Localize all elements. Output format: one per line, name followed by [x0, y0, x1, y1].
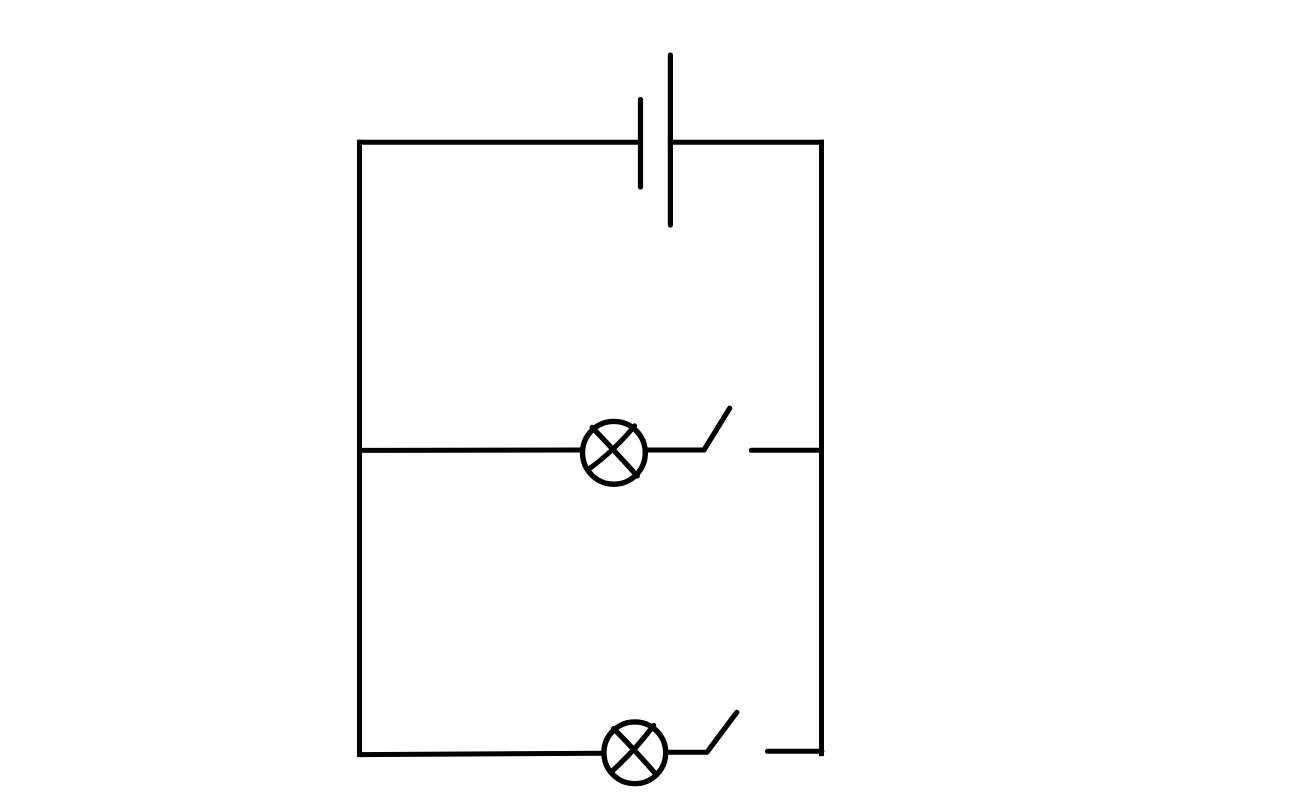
wire lamp L1 to switch S1 pivot: [646, 448, 704, 453]
wire middle branch left (left rail to lamp L1): [360, 448, 583, 453]
battery cell B1 positive plate (long): [668, 55, 673, 225]
lamp L2 cross stroke NE-SW: [611, 725, 654, 772]
wire top-right (battery positive to right rail): [670, 140, 821, 145]
switch S1 arm (open): [704, 408, 730, 450]
lamp L1 cross stroke NE-SW: [588, 426, 634, 470]
lamp L2 cross stroke NW-SE: [614, 729, 657, 775]
wire top-left (battery negative to left rail): [360, 140, 641, 145]
lamp L1 envelope (circle): [583, 421, 646, 484]
wire lamp L2 to switch S2 pivot: [667, 750, 708, 755]
lamp L1 cross stroke NW-SE: [592, 427, 637, 476]
switch S2 arm (open): [707, 712, 737, 752]
wire bottom rail (left rail to lamp L2): [360, 753, 605, 754]
wire right rail: [819, 142, 824, 753]
lamp L2 envelope (circle): [604, 722, 666, 784]
battery cell B1 negative plate (short): [638, 100, 643, 188]
wire switch S1 fixed contact to right rail: [751, 448, 821, 453]
wire left rail: [357, 142, 362, 754]
wire switch S2 fixed contact to right rail: [768, 749, 822, 754]
